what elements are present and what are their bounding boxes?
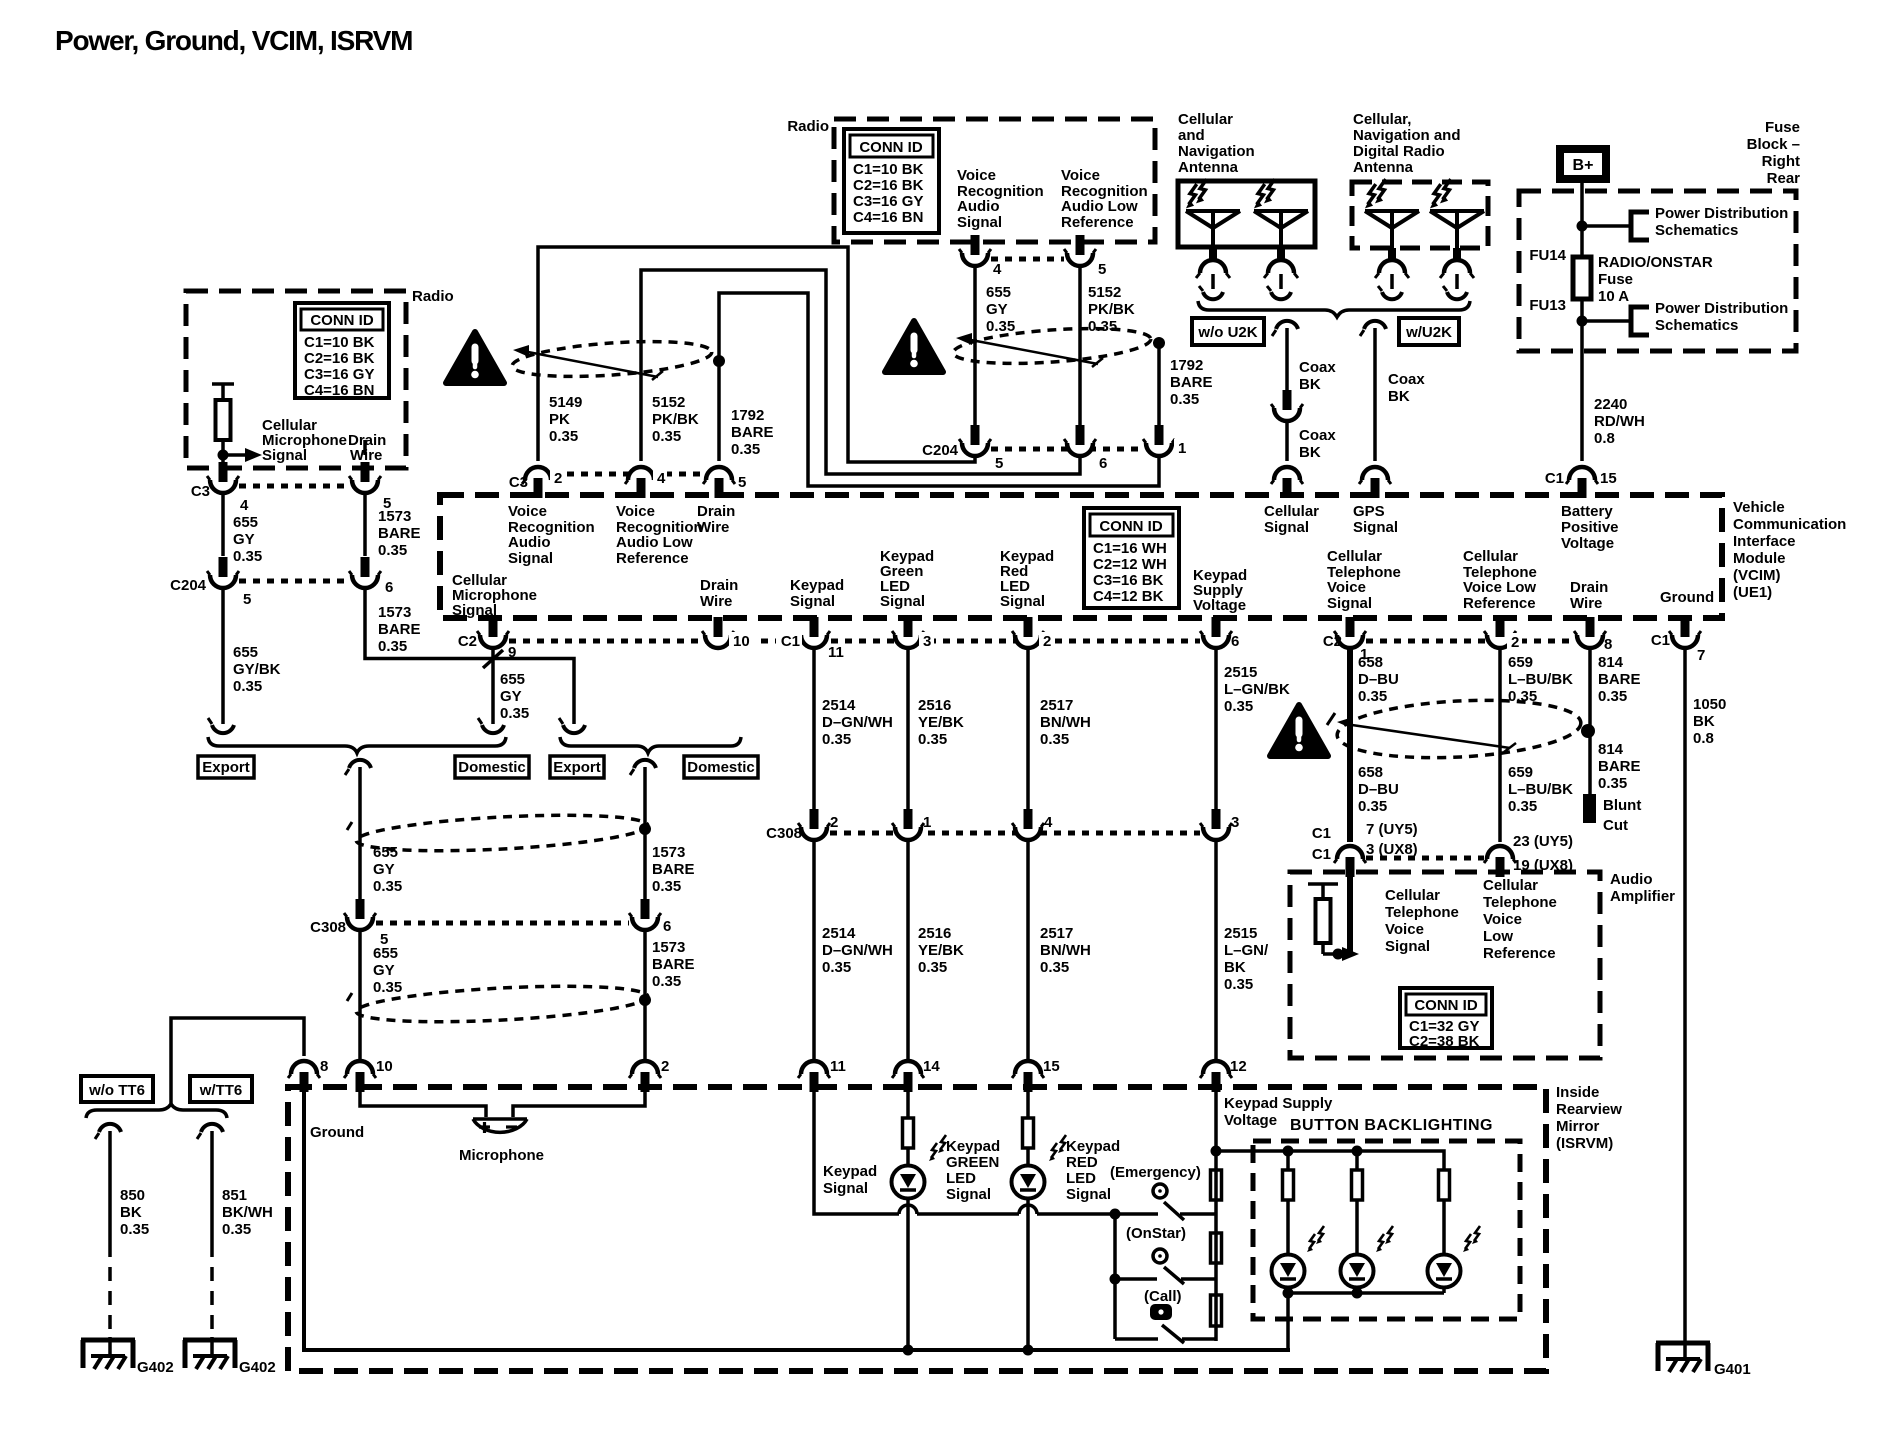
svg-text:Signal: Signal [790, 593, 835, 610]
wire brace1 down to C308-5 [345, 760, 371, 775]
svg-text:2515: 2515 [1224, 925, 1257, 942]
connector C308 pin 3 [1200, 809, 1232, 840]
svg-text:Audio Low: Audio Low [616, 534, 693, 551]
link to power distribution upper [1582, 224, 1631, 228]
svg-text:2516: 2516 [918, 697, 951, 714]
ellipse B left tick [347, 993, 352, 1001]
svg-text:Voice: Voice [616, 503, 655, 520]
Domestic box 2 [684, 756, 758, 778]
svg-text:655: 655 [373, 844, 398, 861]
svg-text:BN/WH: BN/WH [1040, 714, 1091, 731]
svg-text:5: 5 [995, 455, 1003, 472]
ground riser and bottom bus [304, 1080, 1290, 1350]
svg-text:0.35: 0.35 [652, 878, 681, 895]
svg-text:Drain: Drain [700, 577, 738, 594]
svg-text:Voltage: Voltage [1224, 1112, 1277, 1129]
svg-text:2: 2 [1043, 633, 1051, 650]
svg-text:CONN ID: CONN ID [310, 312, 374, 329]
svg-text:0.35: 0.35 [1224, 698, 1253, 715]
bb bottom bus [1288, 1291, 1444, 1295]
microphone symbol [473, 1119, 527, 1133]
call switch [1115, 1304, 1216, 1343]
svg-text:C2=38 BK: C2=38 BK [1409, 1033, 1480, 1050]
coax wire 2 top hook [1360, 321, 1386, 336]
connector radio C3 pin 5 [1064, 235, 1096, 266]
svg-text:6: 6 [385, 579, 393, 596]
svg-text:Microphone: Microphone [459, 1147, 544, 1164]
svg-text:C2=16 BK: C2=16 BK [853, 177, 924, 194]
svg-text:C1=10 BK: C1=10 BK [304, 334, 375, 351]
svg-text:0.35: 0.35 [233, 678, 262, 695]
svg-text:0.35: 0.35 [1358, 688, 1387, 705]
svg-text:Schematics: Schematics [1655, 222, 1738, 239]
svg-text:RED: RED [1066, 1154, 1098, 1171]
svg-text:814: 814 [1598, 741, 1624, 758]
svg-text:0.35: 0.35 [1170, 391, 1199, 408]
connector C204 pin 6 (middle) [1064, 425, 1096, 456]
svg-text:Low: Low [1483, 928, 1513, 945]
svg-text:0.35: 0.35 [1508, 798, 1537, 815]
svg-text:(Emergency): (Emergency) [1110, 1164, 1201, 1181]
svg-text:1: 1 [1178, 440, 1186, 457]
svg-text:Audio: Audio [1610, 871, 1653, 888]
radio (left) dashed box [186, 291, 406, 468]
connector ISRVM pin 15 [1012, 1061, 1044, 1092]
wire C308-6 down [643, 929, 647, 1061]
svg-text:w/o U2K: w/o U2K [1197, 324, 1257, 341]
svg-text:Voice: Voice [1385, 921, 1424, 938]
audio amp resistor [1308, 884, 1340, 954]
svg-text:10: 10 [376, 1058, 393, 1075]
power distribution bracket lower [1631, 307, 1649, 335]
wire C204-5 to C3-2 [538, 247, 975, 462]
svg-text:BARE: BARE [731, 424, 774, 441]
wire 851 BK/WH dashed [210, 1243, 214, 1337]
power distribution bracket upper [1631, 212, 1649, 240]
svg-text:Cellular: Cellular [1178, 111, 1233, 128]
ellipse B junction dot [639, 994, 651, 1006]
wire keypad red C308 to ISRVM-15 [1026, 839, 1030, 1061]
wire end hook [208, 718, 234, 733]
svg-text:655: 655 [500, 671, 525, 688]
svg-text:Signal: Signal [1000, 593, 1045, 610]
wire 851 BK/WH top hook [197, 1124, 223, 1139]
wire end hook [478, 718, 504, 733]
wire 658 D-BU thick upper [1347, 647, 1353, 842]
connector cellular signal pin on VCIM [1271, 467, 1303, 498]
svg-text:Wire: Wire [1570, 595, 1602, 612]
antenna box dashed [1352, 182, 1488, 248]
svg-text:BARE: BARE [378, 621, 421, 638]
junction dot signal bus [1110, 1209, 1121, 1220]
svg-text:B+: B+ [1573, 157, 1594, 174]
junction dot onstar [1110, 1274, 1121, 1285]
svg-text:851: 851 [222, 1187, 247, 1204]
wire 655 GY C3-4 to C204-5 [221, 492, 225, 556]
svg-text:2514: 2514 [822, 697, 856, 714]
svg-text:1573: 1573 [378, 604, 411, 621]
svg-text:655: 655 [233, 644, 258, 661]
svg-text:D–GN/WH: D–GN/WH [822, 714, 893, 731]
svg-text:C2=16 BK: C2=16 BK [304, 350, 375, 367]
svg-text:1573: 1573 [652, 939, 685, 956]
svg-text:23 (UY5): 23 (UY5) [1513, 833, 1573, 850]
svg-text:Cellular: Cellular [1463, 548, 1518, 565]
bb resistor 3 [1439, 1170, 1450, 1200]
wire 1573 BARE C3-5 to C204-6 [363, 492, 367, 556]
svg-text:Signal: Signal [1327, 595, 1372, 612]
svg-text:C1: C1 [781, 633, 800, 650]
bb LED 1 [1272, 1255, 1305, 1288]
junction dot upper [1577, 221, 1588, 232]
svg-text:PK: PK [549, 411, 570, 428]
svg-text:5152: 5152 [652, 394, 685, 411]
ellipse 3 leader arrow [1337, 717, 1516, 752]
antenna merge brace [1198, 301, 1470, 317]
connector ISRVM pin 2 [629, 1061, 661, 1092]
wire end hook [559, 718, 585, 733]
svg-text:Keypad: Keypad [790, 577, 844, 594]
antenna 2 [1254, 211, 1308, 299]
brace merging export/domestic (right) [560, 737, 741, 753]
connector pin 2 right [1484, 617, 1516, 648]
svg-text:PK/BK: PK/BK [1088, 301, 1135, 318]
svg-text:Voice: Voice [508, 503, 547, 520]
svg-text:4: 4 [240, 497, 249, 514]
svg-text:Positive: Positive [1561, 519, 1619, 536]
svg-text:C4=16 BN: C4=16 BN [853, 209, 923, 226]
ellipse 1 leader arrow [513, 345, 663, 380]
connector ISRVM pin 10 [344, 1061, 376, 1092]
svg-text:1792: 1792 [731, 407, 764, 424]
wire 851 BK/WH solid [210, 1131, 214, 1243]
svg-text:Communication: Communication [1733, 516, 1846, 533]
svg-text:0.35: 0.35 [1088, 318, 1117, 335]
switch chain resistor 2 [1211, 1233, 1222, 1263]
svg-text:0.35: 0.35 [822, 731, 851, 748]
svg-text:(UE1): (UE1) [1733, 584, 1772, 601]
svg-text:Signal: Signal [508, 550, 553, 567]
wire 659 L-BU/BK upper [1498, 647, 1502, 842]
connector pin 10 [702, 617, 734, 648]
svg-text:0.35: 0.35 [1224, 976, 1253, 993]
keypad signal wire down and bus [814, 1080, 899, 1214]
svg-text:Domestic: Domestic [687, 759, 755, 776]
svg-text:4: 4 [993, 261, 1002, 278]
svg-text:1792: 1792 [1170, 357, 1203, 374]
svg-text:1050: 1050 [1693, 696, 1726, 713]
svg-text:C1: C1 [1312, 825, 1331, 842]
CONN ID table (VCIM) [1084, 508, 1179, 608]
keypad supply wire [1214, 1080, 1218, 1341]
connector ISRVM pin 8 [288, 1061, 320, 1092]
wire 1792 BARE dot to C204-1 [1157, 343, 1161, 427]
connector ISRVM pin 14 [892, 1061, 924, 1092]
svg-text:GY: GY [986, 301, 1008, 318]
svg-text:Fuse: Fuse [1765, 119, 1800, 136]
connector C204 pin 5 [207, 557, 239, 588]
svg-text:Export: Export [202, 759, 250, 776]
junction dot supply [1211, 1146, 1222, 1157]
wire crossing kink [483, 650, 503, 668]
svg-text:Cellular: Cellular [1483, 877, 1538, 894]
CONN ID table (left radio) [295, 303, 389, 399]
svg-text:14: 14 [923, 1058, 940, 1075]
svg-text:BK: BK [1693, 713, 1715, 730]
twisted pair ellipse 1 [511, 336, 713, 382]
svg-text:C1: C1 [1312, 846, 1331, 863]
node with arrow to Cellular Microphone Signal [218, 448, 263, 462]
junction dots on bottom bus [903, 1345, 914, 1356]
connector C204 pin 6 [349, 557, 381, 588]
svg-text:6: 6 [1099, 455, 1107, 472]
svg-text:Radio: Radio [412, 288, 454, 305]
red led branch wire [1026, 1080, 1030, 1350]
svg-text:GY/BK: GY/BK [233, 661, 281, 678]
svg-text:Keypad Supply: Keypad Supply [1224, 1095, 1333, 1112]
svg-text:Voice: Voice [1483, 911, 1522, 928]
svg-text:C3=16 GY: C3=16 GY [304, 366, 374, 383]
connector C3 pin 4 [207, 462, 239, 493]
antenna 1 [1186, 211, 1240, 299]
svg-text:w/TT6: w/TT6 [199, 1082, 243, 1099]
svg-text:Signal: Signal [1385, 938, 1430, 955]
svg-text:7: 7 [1697, 647, 1705, 664]
svg-text:Voice Low: Voice Low [1463, 579, 1536, 596]
svg-text:Signal: Signal [880, 593, 925, 610]
bb led branch 1 [1286, 1151, 1290, 1350]
coax wire 1 top hook [1272, 321, 1298, 336]
svg-text:0.35: 0.35 [373, 878, 402, 895]
svg-text:5149: 5149 [549, 394, 582, 411]
onstar switch [1115, 1249, 1216, 1284]
svg-text:5: 5 [738, 474, 746, 491]
svg-text:RD/WH: RD/WH [1594, 413, 1645, 430]
wire keypad supply VCIM-6 to C308 [1214, 647, 1218, 810]
connector C3 pin 2 on VCIM [522, 467, 554, 498]
svg-text:YE/BK: YE/BK [918, 714, 964, 731]
svg-text:5152: 5152 [1088, 284, 1121, 301]
svg-text:Telephone: Telephone [1385, 904, 1459, 921]
svg-text:BN/WH: BN/WH [1040, 942, 1091, 959]
coax wire 1 upper [1285, 328, 1289, 393]
svg-text:C3: C3 [509, 474, 528, 491]
wire keypad red VCIM-2 to C308 [1026, 647, 1030, 810]
antenna 3 [1365, 211, 1419, 299]
ellipse A junction dot [639, 823, 651, 835]
svg-text:(ISRVM): (ISRVM) [1556, 1135, 1613, 1152]
svg-text:G402: G402 [239, 1359, 276, 1376]
svg-text:BARE: BARE [652, 861, 695, 878]
antenna 4 bolts [1430, 184, 1441, 208]
svg-text:Signal: Signal [1353, 519, 1398, 536]
svg-text:GPS: GPS [1353, 503, 1385, 520]
svg-text:PK/BK: PK/BK [652, 411, 699, 428]
green led bolts [929, 1143, 937, 1161]
connector C2 pin 9 [477, 617, 509, 648]
bb resistor 2 [1352, 1170, 1363, 1200]
wire C204-6 to C3-4 [641, 270, 1080, 474]
twisted pair ellipse 2 [952, 323, 1152, 369]
svg-text:Audio: Audio [957, 198, 1000, 215]
connector C204 pin 5 (middle) [959, 425, 991, 456]
svg-text:G402: G402 [137, 1359, 174, 1376]
drain wire stub inside radio box [363, 440, 367, 455]
link to power distribution lower [1582, 319, 1631, 323]
svg-text:7 (UY5): 7 (UY5) [1366, 821, 1418, 838]
emergency switch [1153, 1184, 1216, 1220]
svg-text:2: 2 [830, 814, 838, 831]
svg-text:0.35: 0.35 [986, 318, 1015, 335]
svg-text:GY: GY [500, 688, 522, 705]
svg-text:9: 9 [508, 644, 516, 661]
bb led 3 bolts [1463, 1234, 1471, 1252]
svg-text:0.35: 0.35 [652, 428, 681, 445]
connector C308 pin 5 [344, 899, 376, 930]
resistor (radio internal) [212, 384, 234, 468]
svg-text:15: 15 [1600, 470, 1617, 487]
drain junction dot on C3-5 wire [713, 355, 725, 367]
svg-text:Voltage: Voltage [1193, 597, 1246, 614]
svg-text:Ground: Ground [310, 1124, 364, 1141]
connector C308 pin 1 [892, 809, 924, 840]
svg-text:LED: LED [946, 1170, 976, 1187]
wire keypad green C308 to ISRVM-14 [906, 839, 910, 1061]
svg-text:BK: BK [1224, 959, 1246, 976]
w/o TT6 box [81, 1076, 153, 1102]
connector ISRVM pin 12 [1200, 1061, 1232, 1092]
warning triangle 3 [1270, 705, 1328, 756]
svg-text:8: 8 [1604, 636, 1612, 653]
switch chain resistor 1 [1211, 1170, 1222, 1200]
svg-text:814: 814 [1598, 654, 1624, 671]
bb led branch 3 [1442, 1200, 1446, 1293]
svg-text:C3=16 GY: C3=16 GY [853, 193, 923, 210]
audio row link [1366, 856, 1484, 861]
svg-text:2: 2 [554, 470, 562, 487]
junction dot lower [1577, 316, 1588, 327]
svg-text:Cellular: Cellular [1264, 503, 1319, 520]
svg-text:Cellular,: Cellular, [1353, 111, 1411, 128]
svg-text:D–GN/WH: D–GN/WH [822, 942, 893, 959]
svg-text:C3=16 BK: C3=16 BK [1093, 572, 1164, 589]
twisted pair ellipse 3 [1336, 695, 1583, 764]
connector C3 pin 5 [349, 462, 381, 493]
svg-text:Vehicle: Vehicle [1733, 499, 1785, 516]
svg-text:YE/BK: YE/BK [918, 942, 964, 959]
svg-text:Antenna: Antenna [1353, 159, 1414, 176]
ground G402 left [81, 1340, 135, 1369]
switch chain resistor 3 [1211, 1295, 1222, 1326]
svg-text:GY: GY [373, 962, 395, 979]
svg-text:Signal: Signal [946, 1186, 991, 1203]
svg-text:Coax: Coax [1299, 427, 1336, 444]
svg-text:Signal: Signal [452, 602, 497, 619]
svg-text:Keypad: Keypad [1066, 1138, 1120, 1155]
svg-text:GY: GY [373, 861, 395, 878]
ellipse 3 left tick [1327, 713, 1335, 725]
3 (UX8) label [1362, 841, 1426, 856]
svg-text:C204: C204 [922, 442, 959, 459]
svg-text:850: 850 [120, 1187, 145, 1204]
wire 850 BK top hook [95, 1124, 121, 1139]
svg-text:0.35: 0.35 [233, 548, 262, 565]
svg-text:BK: BK [120, 1204, 142, 1221]
svg-text:Audio: Audio [508, 534, 551, 551]
svg-text:Mirror: Mirror [1556, 1118, 1600, 1135]
svg-text:L–BU/BK: L–BU/BK [1508, 671, 1573, 688]
switch bus vertical [1113, 1214, 1117, 1339]
button backlighting dashed box [1253, 1141, 1520, 1319]
wire 850 BK solid [108, 1131, 112, 1243]
bb resistor 1 [1283, 1170, 1294, 1200]
hop over green led wire [899, 1205, 917, 1214]
svg-text:10: 10 [733, 633, 750, 650]
connector C2 pin 1 [1334, 617, 1366, 648]
svg-text:C1: C1 [1651, 632, 1670, 649]
svg-text:Voltage: Voltage [1561, 535, 1614, 552]
svg-text:Signal: Signal [1066, 1186, 1111, 1203]
connector C308 pin 2 [798, 809, 830, 840]
ellipse 2 leader arrow [956, 333, 1103, 367]
brace merging export/domestic (left) [208, 737, 506, 753]
fuse FU14/FU13 RADIO/ONSTAR [1573, 257, 1591, 299]
antenna 3 bolts [1365, 184, 1376, 208]
svg-text:Interface: Interface [1733, 533, 1796, 550]
connector audio C1 pin 3 [1334, 846, 1366, 877]
svg-text:6: 6 [1231, 633, 1239, 650]
bb led 2 bolts [1376, 1234, 1384, 1252]
drain wire junction dot [1153, 337, 1165, 349]
wire 1050 BK ground [1683, 647, 1687, 1360]
CONN ID table (audio) [1400, 988, 1492, 1050]
wire keypad signal C308 to ISRVM-11 [812, 839, 816, 1061]
svg-text:4: 4 [1044, 814, 1053, 831]
svg-text:Rearview: Rearview [1556, 1101, 1622, 1118]
svg-text:C1: C1 [1545, 470, 1564, 487]
svg-text:Signal: Signal [957, 214, 1002, 231]
svg-text:Fuse: Fuse [1598, 271, 1633, 288]
connector C1 pin 11 [798, 617, 830, 648]
svg-text:8: 8 [320, 1058, 328, 1075]
svg-text:Cut: Cut [1603, 817, 1628, 834]
svg-text:Inside: Inside [1556, 1084, 1599, 1101]
connector ISRVM pin 11 [798, 1061, 830, 1092]
svg-text:2517: 2517 [1040, 697, 1073, 714]
connector pin 3 [892, 617, 924, 648]
svg-text:CONN ID: CONN ID [1099, 518, 1163, 535]
connector C204 pin 1 (middle) [1143, 425, 1175, 456]
svg-text:Module: Module [1733, 550, 1786, 567]
svg-text:6: 6 [663, 918, 671, 935]
svg-text:Signal: Signal [823, 1180, 868, 1197]
bb LED 3 [1428, 1255, 1461, 1288]
svg-text:BUTTON BACKLIGHTING: BUTTON BACKLIGHTING [1290, 1117, 1493, 1134]
bus segment [917, 1212, 1019, 1216]
svg-text:0.35: 0.35 [652, 973, 681, 990]
svg-text:0.35: 0.35 [378, 638, 407, 655]
wire 1573 BARE from C204-6 right and down [365, 587, 574, 724]
ground G402 right [183, 1340, 237, 1369]
svg-text:BARE: BARE [1598, 758, 1641, 775]
svg-text:659: 659 [1508, 764, 1533, 781]
inline coax connector [1271, 390, 1303, 421]
VCIM bottom row link left [509, 639, 1200, 644]
svg-text:1: 1 [923, 814, 931, 831]
svg-text:C308: C308 [310, 919, 346, 936]
svg-text:BARE: BARE [378, 525, 421, 542]
wire 5152 PK/BK radio to C204-6 [1078, 265, 1082, 427]
